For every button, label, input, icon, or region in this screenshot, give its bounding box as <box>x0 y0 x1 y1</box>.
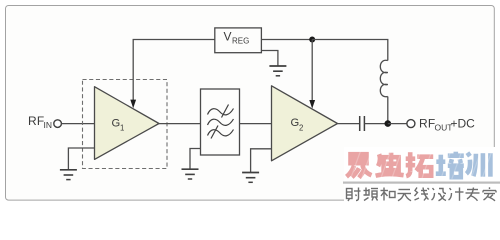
dashed enclosure around G1 <box>83 80 168 169</box>
ground G1 <box>60 170 77 180</box>
svg-text:G: G <box>291 117 300 129</box>
svg-text:+DC: +DC <box>451 117 476 131</box>
wire node down to G2 arrow <box>311 40 313 104</box>
node junction top <box>309 37 315 43</box>
char 和 <box>381 188 396 201</box>
label VREG <box>224 30 250 46</box>
wire capacitor to output node <box>364 123 387 125</box>
filter wave bottom slash <box>211 126 218 139</box>
ground stub G2 <box>251 149 272 173</box>
svg-text:G: G <box>112 117 121 129</box>
svg-text:REG: REG <box>232 36 249 45</box>
svg-text:1: 1 <box>120 124 124 133</box>
watermark big char 2 (pink) <box>376 153 404 176</box>
watermark underline <box>343 182 500 184</box>
wire VREG to node <box>261 39 312 41</box>
inductor <box>380 60 388 97</box>
wire node to inductor <box>312 40 388 61</box>
char 频 <box>364 188 379 201</box>
watermark big char 4 (blue) <box>436 152 464 178</box>
regulator VREG box <box>215 28 262 53</box>
wire input to G1 <box>62 123 95 125</box>
label G1 <box>112 117 125 132</box>
amplifier G2 <box>272 86 338 161</box>
ground VREG <box>269 66 286 76</box>
wire filter to G2 <box>240 123 272 125</box>
svg-text:V: V <box>224 30 232 44</box>
ground filter <box>182 169 199 179</box>
svg-text:2: 2 <box>299 124 303 133</box>
char 专 <box>466 188 480 201</box>
ground stub filter <box>190 149 201 170</box>
watermark background patch <box>344 147 500 203</box>
svg-text:RF: RF <box>419 117 435 131</box>
arrowhead into G1 <box>130 100 136 109</box>
char 射 <box>347 188 361 202</box>
label RFIN <box>28 114 52 130</box>
filter wave top slash <box>222 105 229 118</box>
char 家 <box>483 187 496 201</box>
watermark shine streaks <box>351 151 492 179</box>
filter wave middle <box>208 119 234 125</box>
input terminal <box>54 120 62 128</box>
output terminal <box>407 120 415 128</box>
wire feedback VREG to G1 arrow <box>133 40 215 103</box>
ground stub VREG <box>261 51 278 67</box>
node output <box>385 120 392 127</box>
watermark big char 3 (pink) <box>406 152 434 176</box>
arrowhead into G2 <box>309 100 315 109</box>
filter wave top <box>208 109 234 115</box>
svg-text:RF: RF <box>28 114 44 128</box>
char 设 <box>432 188 447 201</box>
label G2 <box>291 117 304 133</box>
filter box <box>201 89 240 155</box>
wire G2 output to capacitor <box>338 123 360 125</box>
wire inductor to output node <box>387 97 389 124</box>
watermark big char 5 (blue) <box>466 153 490 177</box>
capacitor <box>360 116 365 131</box>
char 计 <box>449 188 464 201</box>
watermark slogan (gray) <box>347 187 497 201</box>
char 天 <box>398 190 412 201</box>
wire node to output terminal <box>388 123 407 125</box>
watermark big char 1 (pink) <box>347 154 372 178</box>
label RFOUT+DC <box>419 117 475 133</box>
char 线 <box>415 188 430 201</box>
amplifier G1 <box>95 87 160 160</box>
ground G2 <box>242 173 259 183</box>
filter wave bottom <box>208 130 234 136</box>
svg-text:IN: IN <box>44 120 53 130</box>
ground stub G1 <box>68 148 94 170</box>
wire G1 to filter <box>159 123 201 125</box>
